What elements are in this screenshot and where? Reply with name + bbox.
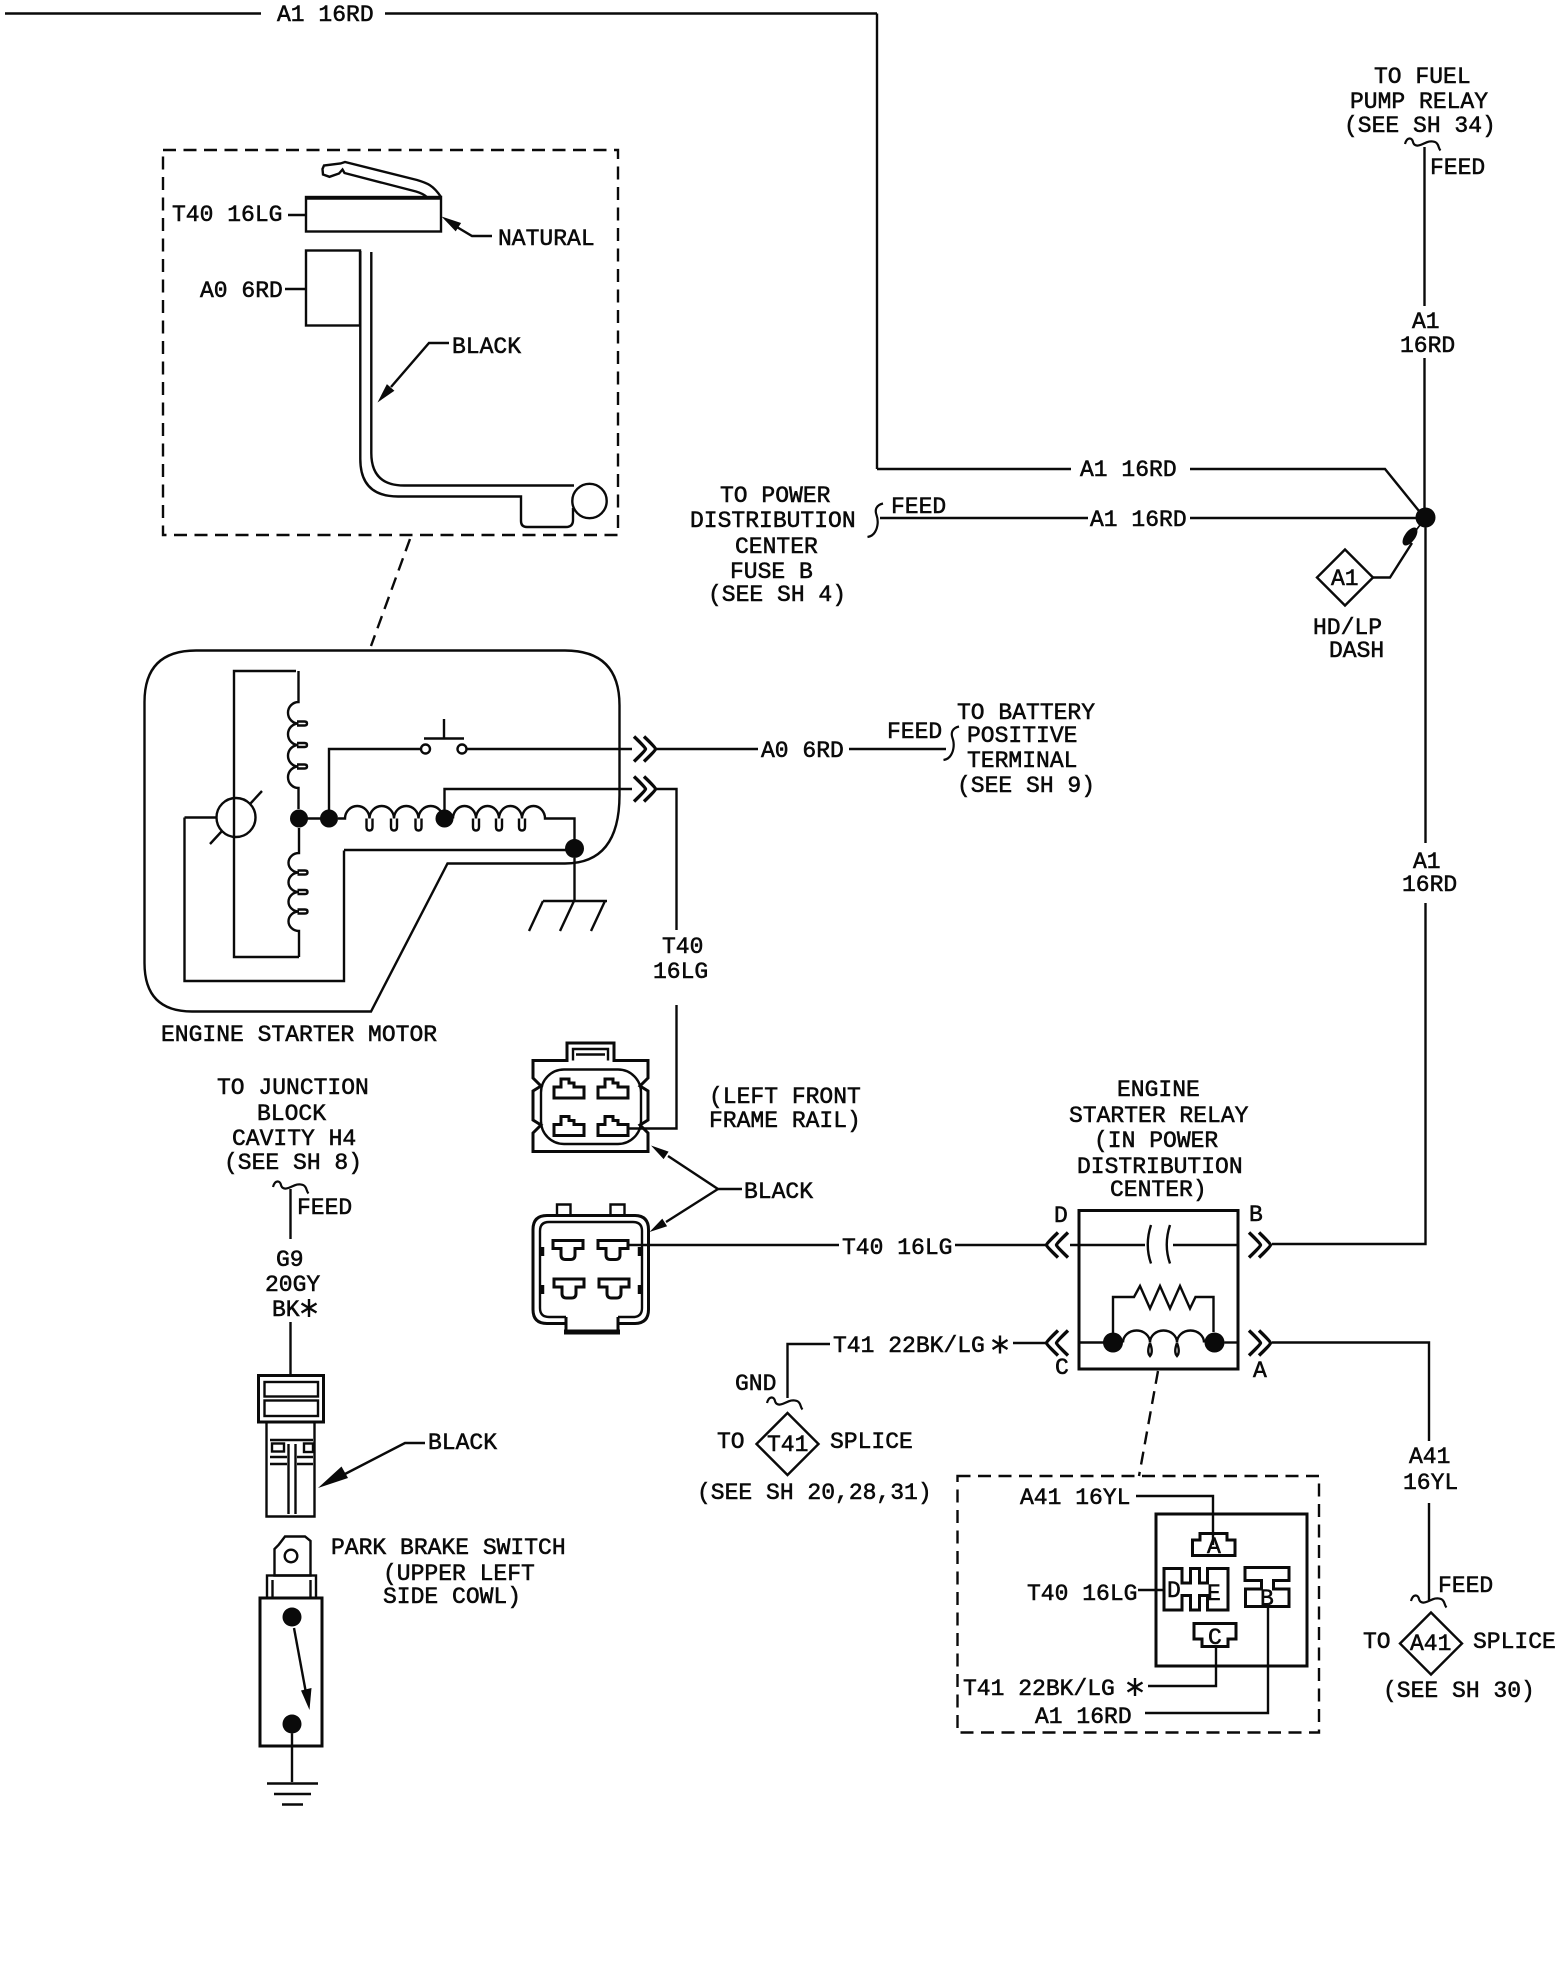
- dashed detail box (starter terminals): [163, 150, 618, 535]
- svg-text:A: A: [1253, 1358, 1267, 1384]
- svg-text:NATURAL: NATURAL: [498, 226, 595, 252]
- wire A1 16RD lower feed cont: [1190, 517, 1416, 519]
- dashed detail box (relay pinout): [958, 1476, 1320, 1733]
- wire A1 16RD right vertical drop: [876, 14, 878, 470]
- wire A1 16RD fuel pump drop: [1423, 147, 1425, 306]
- node dot4: [565, 839, 584, 858]
- solenoid switch contacts: [421, 745, 430, 754]
- svg-text:FRAME RAIL): FRAME RAIL): [709, 1108, 861, 1134]
- park brake connector body: [267, 1422, 315, 1517]
- svg-text:STARTER RELAY: STARTER RELAY: [1069, 1103, 1249, 1129]
- wire A1 16RD upper feed run: [877, 468, 1071, 470]
- node relay coil right dot: [1205, 1333, 1225, 1353]
- motor series coil 2: [453, 806, 566, 819]
- wire A0 6RD cont: [849, 748, 946, 750]
- wire dot3 up to T40 out: [445, 789, 633, 819]
- svg-text:(SEE SH 30): (SEE SH 30): [1383, 1678, 1535, 1704]
- svg-text:TO: TO: [1363, 1629, 1391, 1655]
- node dot3: [436, 810, 454, 828]
- brace battery feed: [944, 727, 960, 761]
- engine starter motor outline: [145, 651, 620, 1012]
- node relay coil left dot: [1103, 1333, 1123, 1353]
- svg-text:A41: A41: [1410, 1631, 1451, 1657]
- connector C1 pin 3: [554, 1117, 584, 1136]
- wire switch to A0 connector: [467, 748, 633, 750]
- park brake connector bars: [265, 1382, 319, 1397]
- connector C1 (female, left front frame rail) outer body: [533, 1043, 648, 1152]
- motor field coil lower: [289, 828, 300, 957]
- svg-text:A1 16RD: A1 16RD: [277, 2, 374, 28]
- wire coil2 to dot4: [566, 819, 575, 841]
- svg-text:FEED: FEED: [297, 1195, 352, 1221]
- svg-text:T40 16LG: T40 16LG: [172, 202, 282, 228]
- svg-text:CAVITY H4: CAVITY H4: [232, 1126, 356, 1152]
- park brake switch flange: [267, 1576, 316, 1599]
- relay coil: [1123, 1331, 1204, 1343]
- svg-text:D: D: [1054, 1203, 1068, 1229]
- terminal T40 rectangle: [306, 197, 441, 232]
- svg-text:(SEE SH 9): (SEE SH 9): [957, 773, 1095, 799]
- motor field coil upper: [288, 671, 299, 809]
- svg-text:BLACK: BLACK: [428, 1430, 497, 1456]
- node switch contact bottom: [283, 1715, 302, 1734]
- svg-text:CENTER): CENTER): [1110, 1177, 1207, 1203]
- leader from A1 diamond to junction: [1373, 543, 1412, 578]
- connector chevrons A0 out: [634, 737, 656, 762]
- svg-text:BLOCK: BLOCK: [257, 1101, 326, 1127]
- wire A1 16RD upper feed run cont: [1190, 469, 1419, 511]
- connector C2 pin 3: [554, 1279, 584, 1298]
- connector C1 cavity: [541, 1070, 641, 1145]
- relay box: [1079, 1211, 1238, 1370]
- svg-text:T41 22BK/LG: T41 22BK/LG: [833, 1333, 985, 1359]
- svg-text:POSITIVE: POSITIVE: [967, 723, 1077, 749]
- svg-text:ENGINE STARTER MOTOR: ENGINE STARTER MOTOR: [161, 1022, 437, 1048]
- wire pin C to T41 label: [1148, 1645, 1216, 1686]
- brace T41 splice: [767, 1397, 803, 1409]
- wire A1 16RD right vertical cont to relay pin B: [1272, 903, 1426, 1244]
- svg-text:(SEE SH 4): (SEE SH 4): [708, 582, 846, 608]
- svg-text:16RD: 16RD: [1400, 333, 1455, 359]
- brace junction block feed: [273, 1181, 309, 1193]
- svg-text:CENTER: CENTER: [735, 534, 818, 560]
- connector C1 tab inner: [573, 1049, 608, 1061]
- connector C2 side keys: [542, 1247, 640, 1294]
- svg-text:TO POWER: TO POWER: [720, 483, 831, 509]
- svg-text:E: E: [1207, 1581, 1221, 1607]
- svg-text:A1: A1: [1412, 309, 1440, 335]
- svg-text:BK: BK: [272, 1297, 300, 1323]
- splice symbol A41 diamond: [1400, 1613, 1462, 1675]
- connector C2 bottom notch: [566, 1317, 618, 1333]
- wire A1 16RD top horizontal: [5, 12, 261, 14]
- svg-text:SPLICE: SPLICE: [1473, 1629, 1556, 1655]
- motor field winding frame: [234, 671, 299, 957]
- wire T40 16LG to relay: [628, 1244, 839, 1246]
- svg-text:FEED: FEED: [1438, 1573, 1493, 1599]
- svg-text:T41: T41: [767, 1432, 808, 1458]
- connector C1 pin 4: [598, 1117, 628, 1136]
- svg-text:FEED: FEED: [891, 494, 946, 520]
- wire T40 16LG down: [654, 789, 677, 930]
- connector chevrons T40 out: [634, 777, 656, 802]
- connector C1 pin 2: [598, 1079, 628, 1098]
- node (junction dot) armature top: [290, 810, 308, 828]
- connector chevrons relay B: [1249, 1233, 1271, 1258]
- terminal A0 rectangle: [306, 251, 360, 326]
- svg-text:FEED: FEED: [1430, 155, 1485, 181]
- svg-text:T40 16LG: T40 16LG: [842, 1235, 952, 1261]
- socket pin B: [1245, 1568, 1289, 1607]
- wire G9 cont: [289, 1322, 291, 1375]
- svg-text:16YL: 16YL: [1403, 1470, 1458, 1496]
- svg-text:PUMP RELAY: PUMP RELAY: [1350, 89, 1488, 115]
- junction dot A1: [1416, 508, 1436, 528]
- svg-text:A1 16RD: A1 16RD: [1090, 507, 1187, 533]
- svg-text:(SEE SH 20,28,31): (SEE SH 20,28,31): [697, 1480, 932, 1506]
- svg-text:A1 16RD: A1 16RD: [1080, 457, 1177, 483]
- svg-text:(IN POWER: (IN POWER: [1094, 1128, 1218, 1154]
- svg-text:DASH: DASH: [1329, 638, 1384, 664]
- park brake switch body: [260, 1598, 322, 1746]
- motor armature circle: [217, 798, 256, 837]
- wire dot4 to ground: [573, 858, 575, 901]
- svg-text:BLACK: BLACK: [744, 1179, 813, 1205]
- connector chevrons relay C: [1047, 1331, 1069, 1356]
- svg-text:A41 16YL: A41 16YL: [1020, 1485, 1130, 1511]
- svg-text:T40: T40: [662, 934, 703, 960]
- connector C1 pin 1: [554, 1079, 584, 1098]
- wire armature to frame: [185, 816, 217, 818]
- node dot2: [320, 810, 338, 828]
- ground (park brake): [267, 1784, 318, 1805]
- park brake connector outer: [259, 1376, 324, 1423]
- svg-text:16LG: 16LG: [653, 959, 708, 985]
- brace A41 feed: [1411, 1595, 1447, 1607]
- svg-text:SPLICE: SPLICE: [830, 1429, 913, 1455]
- svg-text:GND: GND: [735, 1371, 776, 1397]
- wire A1 16RD right vertical (mid): [1424, 528, 1426, 844]
- wire T40 to pin D: [1138, 1589, 1164, 1591]
- leader T40 label: [288, 214, 306, 216]
- svg-text:20GY: 20GY: [265, 1272, 320, 1298]
- black cable double line: [360, 251, 573, 527]
- wire relay contact to B: [1173, 1244, 1238, 1246]
- svg-text:TERMINAL: TERMINAL: [967, 748, 1077, 774]
- svg-text:A: A: [1207, 1534, 1221, 1560]
- wire pin B to A1 label: [1145, 1607, 1268, 1714]
- svg-text:16RD: 16RD: [1402, 872, 1457, 898]
- svg-text:TO: TO: [717, 1429, 745, 1455]
- socket pin D: [1164, 1569, 1228, 1611]
- svg-text:BLACK: BLACK: [452, 334, 521, 360]
- connector C2 pin 1: [553, 1241, 583, 1260]
- leader BLACK to connectors: [668, 1156, 742, 1189]
- svg-text:A41: A41: [1409, 1444, 1450, 1470]
- relay resistor: [1113, 1286, 1214, 1333]
- splice symbol T41 diamond: [757, 1413, 819, 1475]
- wire A41 16YL cont: [1428, 1503, 1430, 1600]
- wire A0 6RD run: [654, 748, 758, 750]
- wire dot2 up to solenoid switch: [329, 749, 421, 819]
- socket pin A: [1193, 1534, 1236, 1556]
- svg-text:TO FUEL: TO FUEL: [1374, 64, 1471, 90]
- motor series coil 1: [338, 806, 443, 819]
- wire A41 to pin A: [1136, 1496, 1213, 1545]
- svg-text:A1: A1: [1331, 566, 1359, 592]
- brace power distribution feed: [868, 504, 884, 538]
- svg-text:FEED: FEED: [887, 719, 942, 745]
- svg-text:T40 16LG: T40 16LG: [1027, 1581, 1137, 1607]
- svg-text:A1 16RD: A1 16RD: [1035, 1704, 1132, 1730]
- svg-text:PARK BRAKE SWITCH: PARK BRAKE SWITCH: [331, 1535, 566, 1561]
- svg-text:B: B: [1249, 1202, 1263, 1228]
- svg-text:(LEFT FRONT: (LEFT FRONT: [709, 1084, 861, 1110]
- svg-text:T41 22BK/LG: T41 22BK/LG: [963, 1676, 1115, 1702]
- park brake switch terminal tab: [275, 1537, 311, 1576]
- terminal T40 spring arm: [323, 162, 442, 197]
- wire T41 elbow to GND: [788, 1344, 831, 1398]
- wire switch to ground: [291, 1734, 293, 1783]
- svg-text:G9: G9: [276, 1247, 304, 1273]
- connector C2 inner wall: [540, 1222, 642, 1317]
- switch arm arrow: [294, 1628, 306, 1693]
- socket pin C: [1194, 1624, 1236, 1647]
- connector C2 outer shell: [533, 1216, 649, 1324]
- wire A1 16RD fuel drop cont: [1423, 358, 1425, 509]
- svg-text:DISTRIBUTION: DISTRIBUTION: [690, 508, 856, 534]
- connector C2 pin 2: [598, 1241, 628, 1260]
- wire dot1 to dot2: [299, 817, 329, 819]
- svg-text:C: C: [1055, 1355, 1069, 1381]
- svg-text:(SEE SH 8): (SEE SH 8): [224, 1150, 362, 1176]
- wire A1 16RD lower feed run: [880, 517, 1088, 519]
- wire G9 drop: [289, 1189, 291, 1239]
- connector C2 pin 4: [599, 1279, 629, 1298]
- ground (motor): [529, 901, 607, 931]
- svg-text:A0 6RD: A0 6RD: [200, 278, 283, 304]
- wire T40 16LG cont to connector: [628, 1005, 677, 1129]
- dashed leader from detail box to motor: [371, 539, 410, 646]
- connector C2 (male) top tabs: [557, 1205, 625, 1216]
- svg-text:SIDE COWL): SIDE COWL): [383, 1584, 521, 1610]
- svg-text:A0 6RD: A0 6RD: [761, 738, 844, 764]
- node switch contact top: [283, 1608, 302, 1627]
- svg-text:TO JUNCTION: TO JUNCTION: [217, 1075, 369, 1101]
- connector chevrons relay D: [1047, 1233, 1069, 1258]
- relay socket box: [1156, 1514, 1307, 1666]
- wire T40 16LG cont: [955, 1244, 1048, 1246]
- leader A0 label: [285, 288, 306, 290]
- connector chevrons relay A: [1249, 1331, 1271, 1356]
- wire frame bottom run: [344, 849, 566, 851]
- relay coil line left: [1079, 1341, 1104, 1343]
- svg-text:D: D: [1167, 1578, 1181, 1604]
- wire coil to box right: [1225, 1341, 1239, 1343]
- connector symbol A1 HD/LP DASH diamond: [1317, 550, 1373, 606]
- wire relay A out: [1272, 1343, 1429, 1442]
- dashed leader relay to pinout detail: [1139, 1371, 1158, 1476]
- wire into relay D: [1070, 1244, 1145, 1246]
- cable end ring: [572, 484, 606, 518]
- svg-text:(SEE SH 34): (SEE SH 34): [1344, 113, 1496, 139]
- brace fuel pump feed: [1405, 138, 1441, 150]
- svg-text:ENGINE: ENGINE: [1117, 1077, 1200, 1103]
- wire T41 22BK/LG to relay C: [1013, 1342, 1048, 1344]
- relay contact plates: [1148, 1225, 1151, 1264]
